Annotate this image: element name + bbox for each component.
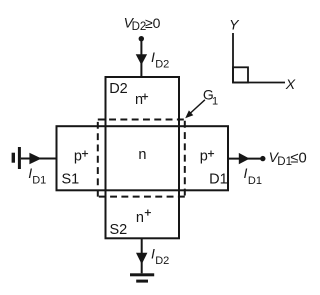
svg-text:n: n <box>136 210 144 226</box>
n+ column region outline (D2 top / S2 bottom) <box>106 77 180 238</box>
svg-text:I: I <box>244 165 248 181</box>
svg-text:1: 1 <box>212 95 218 107</box>
svg-text:D1: D1 <box>209 172 228 188</box>
svg-text:n: n <box>138 147 146 163</box>
battery bar short (left terminal) <box>12 153 15 163</box>
current arrow ID1 right pointing right <box>239 153 250 164</box>
label ID2 top <box>151 49 169 71</box>
svg-text:+: + <box>207 147 214 161</box>
svg-text:D2: D2 <box>155 59 169 71</box>
svg-text:+: + <box>144 206 151 220</box>
label n+ bottom <box>136 206 151 226</box>
svg-text:≤0: ≤0 <box>290 150 306 166</box>
label n+ top <box>135 90 148 109</box>
label ID2 bottom <box>151 246 169 268</box>
battery bar tall (left terminal) <box>18 147 21 169</box>
current arrow ID1 left pointing right <box>29 153 41 164</box>
label VD2>=0 <box>124 15 161 34</box>
label p+ left <box>74 147 89 165</box>
wire D1 to right terminal dot <box>228 158 262 160</box>
label p+ right <box>200 147 215 165</box>
axis origin square <box>233 67 248 82</box>
wire left terminal to S1 <box>21 158 57 160</box>
svg-text:D2: D2 <box>109 81 128 97</box>
top terminal dot <box>139 36 144 41</box>
svg-text:X: X <box>285 76 296 92</box>
svg-text:D1: D1 <box>248 175 262 187</box>
X axis line <box>232 82 285 84</box>
label G1 <box>203 87 218 108</box>
label ID1 right <box>244 165 262 187</box>
ground bar 2 <box>136 280 148 283</box>
p+/n horizontal band outline (S1 - n - D1) <box>57 126 229 190</box>
svg-text:S1: S1 <box>62 171 80 187</box>
ground bar 1 <box>130 273 154 276</box>
current arrow ID2 bottom pointing down <box>136 253 147 264</box>
svg-text:+: + <box>82 147 89 161</box>
svg-text:Y: Y <box>229 17 240 33</box>
label VD1<=0 <box>269 149 307 168</box>
wire S2 to ground <box>141 238 143 273</box>
Y axis line <box>232 33 234 83</box>
label ID1 left <box>28 165 46 187</box>
right terminal dot <box>260 156 265 161</box>
svg-text:+: + <box>141 90 148 104</box>
svg-text:≥0: ≥0 <box>145 15 161 31</box>
wire top terminal to D2 <box>140 39 142 77</box>
gate G1 dashed boundary <box>98 120 185 197</box>
arrow G1 to gate corner <box>185 100 205 118</box>
svg-text:S2: S2 <box>110 222 128 238</box>
current arrow ID2 top pointing down <box>136 54 147 65</box>
svg-text:D2: D2 <box>155 255 169 267</box>
svg-text:D1: D1 <box>32 174 46 186</box>
